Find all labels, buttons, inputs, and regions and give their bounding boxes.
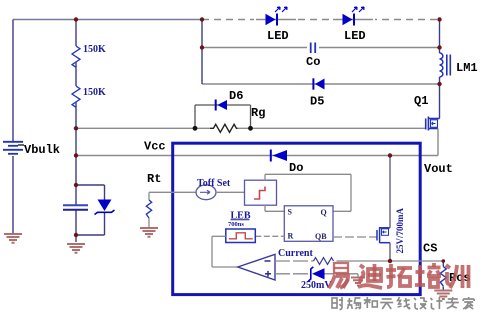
svg-text:Rg: Rg [251, 106, 265, 120]
svg-text:R: R [288, 232, 294, 241]
svg-text:QB: QB [315, 232, 327, 241]
svg-text:S: S [288, 208, 293, 217]
svg-text:Q: Q [321, 208, 327, 217]
svg-text:25V/700mA: 25V/700mA [395, 208, 405, 254]
svg-text:Q1: Q1 [414, 94, 428, 108]
svg-text:Vbulk: Vbulk [24, 143, 60, 157]
svg-text:LM1: LM1 [456, 61, 478, 75]
svg-text:D5: D5 [310, 95, 324, 109]
svg-text:LED: LED [267, 29, 289, 43]
svg-text:Current: Current [278, 248, 313, 259]
svg-text:Toff Set: Toff Set [197, 178, 231, 189]
svg-text:LED: LED [344, 29, 366, 43]
svg-text:Vout: Vout [424, 162, 453, 176]
svg-text:150K: 150K [83, 44, 106, 55]
svg-text:700ns: 700ns [228, 221, 244, 228]
svg-text:D6: D6 [229, 89, 243, 103]
svg-text:Vcc: Vcc [144, 140, 166, 154]
svg-text:150K: 150K [83, 87, 106, 98]
svg-text:Co: Co [306, 55, 320, 69]
svg-text:Rt: Rt [147, 172, 161, 186]
svg-text:250mV: 250mV [301, 280, 332, 291]
svg-text:CS: CS [423, 242, 437, 256]
svg-text:Do: Do [289, 161, 303, 175]
